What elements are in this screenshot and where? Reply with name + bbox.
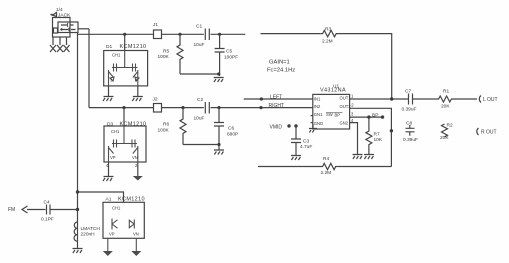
svg-text:IN2: IN2 (314, 104, 321, 109)
svg-text:GAIN=1: GAIN=1 (269, 60, 290, 66)
svg-text:C3: C3 (303, 139, 309, 145)
svg-text:C1: C1 (196, 24, 202, 30)
amplifier A1 KCM1210 (103, 197, 145, 252)
svg-text:680P: 680P (227, 132, 238, 138)
wire GND2 pin down (350, 123, 358, 154)
resistor R3 2.2M (321, 27, 338, 45)
wire stage2 bottom (183, 144, 219, 146)
inductor LMATCH 220nH (74, 222, 100, 241)
ground stage1 (214, 78, 224, 83)
svg-text:OUT1: OUT1 (340, 96, 352, 101)
svg-text:20K: 20K (441, 104, 450, 110)
node D3 input (122, 106, 125, 109)
svg-text:L OUT: L OUT (483, 97, 498, 103)
capacitor C1 10uF (194, 24, 210, 49)
svg-text:10K: 10K (374, 137, 383, 143)
resistor R7 10K (366, 117, 383, 154)
wire jack tip to right-channel corner (78, 28, 89, 30)
resistor R1 20K (437, 89, 453, 110)
svg-text:BP: BP (372, 113, 378, 119)
svg-text:VN: VN (133, 232, 139, 237)
GAIN annotation (267, 60, 295, 74)
svg-text:0.1PF: 0.1PF (41, 217, 54, 223)
ground LMATCH (73, 249, 83, 254)
wire C2 to IC (211, 107, 313, 109)
connector J1 (153, 22, 162, 39)
wire R4 bottom (258, 166, 321, 168)
jack J4 1/4" JACK connector (51, 7, 79, 37)
node left channel to D1 (123, 33, 126, 36)
wire left-channel top (78, 33, 154, 35)
protection D3 KCM1210 (104, 122, 146, 163)
jack switch contact stubs with X (no-connect) (50, 37, 70, 52)
node VMID a (287, 124, 290, 127)
svg-text:R4: R4 (323, 156, 329, 162)
port FM (8, 206, 28, 213)
ground stage2 (214, 150, 224, 155)
node R OUT tap (390, 129, 393, 132)
svg-text:LMATCH: LMATCH (81, 226, 101, 232)
wire C4 to junction (51, 209, 78, 211)
wire D3 input drop (123, 108, 125, 126)
svg-text:2.2M: 2.2M (321, 170, 332, 176)
svg-text:C6: C6 (228, 126, 234, 132)
svg-text:220nH: 220nH (81, 232, 96, 238)
svg-text:LEFT: LEFT (270, 94, 282, 100)
resistor R2 20K (440, 123, 453, 142)
svg-text:D1: D1 (106, 44, 112, 50)
wire feedback top segment (261, 33, 321, 35)
capacitor C3 4.7uF (291, 126, 312, 155)
wire BP (350, 116, 383, 118)
svg-text:VP: VP (109, 232, 115, 237)
svg-text:GND: GND (314, 121, 323, 126)
ground A1 left (triangle) (103, 251, 113, 256)
wire J2 to C2 (162, 107, 204, 109)
node feedback/OUT1 (390, 97, 393, 100)
ground D3 right pin (triangle) (133, 162, 143, 181)
wire FM antenna line vertical (77, 33, 79, 248)
pin stub left row3 (311, 115, 313, 117)
svg-text:0.39uF: 0.39uF (402, 107, 417, 113)
wire to A1 input (78, 192, 124, 202)
svg-text:RIGHT: RIGHT (269, 103, 285, 109)
svg-text:R OUT: R OUT (481, 130, 497, 136)
svg-text:VN: VN (132, 155, 138, 160)
svg-text:10uF: 10uF (194, 42, 205, 48)
capacitor C8 0.39uF (403, 121, 418, 144)
svg-text:100PF: 100PF (224, 55, 238, 61)
ground D1 left pin (103, 86, 114, 101)
capacitor C7 0.39uF (402, 89, 417, 113)
wire R3 to corner and down to OUT1 (338, 34, 392, 99)
wire J1 to C1 (162, 33, 204, 35)
node C5 tap (218, 33, 221, 36)
node VMID b (294, 124, 297, 127)
svg-text:2.2M: 2.2M (322, 39, 333, 45)
svg-text:R2: R2 (447, 123, 453, 129)
svg-text:KCM1210: KCM1210 (118, 197, 145, 203)
svg-text:SW: SW (326, 112, 333, 117)
svg-text:VMID: VMID (270, 124, 283, 130)
node C4 junction (76, 208, 79, 211)
svg-text:10uF: 10uF (194, 116, 205, 122)
wire OUT2 to corner down (350, 108, 392, 166)
ground R7 (364, 155, 374, 160)
capacitor C5 100PF (215, 34, 239, 76)
svg-text:VP: VP (110, 155, 116, 160)
resistor R6 100K (158, 108, 187, 145)
svg-text:Fc=24.1Hz: Fc=24.1Hz (267, 68, 295, 74)
svg-text:20K: 20K (440, 135, 449, 141)
node stage1 bottom (217, 72, 220, 75)
svg-text:R7: R7 (374, 132, 380, 138)
wire stage1 bottom R5 to C5 (180, 73, 219, 75)
wire R4 to OUT2 vertical (337, 166, 391, 168)
svg-text:FM: FM (8, 207, 15, 213)
ground D3 left pin (103, 162, 114, 181)
svg-text:V4312NA: V4312NA (320, 88, 346, 94)
svg-text:100K: 100K (158, 54, 170, 60)
resistor R4 2.2M (321, 156, 338, 176)
protection D1 KCM1210 (104, 44, 148, 86)
capacitor C2 10uF (194, 97, 210, 122)
ground D1 right pin (132, 86, 143, 101)
capacitor C6 680P (214, 108, 238, 150)
wire OUT1 to C7 (350, 98, 408, 100)
wire right-channel vertical (88, 29, 90, 108)
wire C7 to R1 (413, 98, 437, 100)
node R6 tap (181, 106, 184, 109)
svg-text:KCM1210: KCM1210 (120, 44, 147, 50)
svg-text:A1: A1 (106, 197, 112, 203)
svg-text:4.7uF: 4.7uF (300, 144, 312, 150)
wire right channel horizontal to J2 (89, 107, 154, 109)
svg-text:GN1: GN1 (314, 112, 323, 117)
svg-text:BP: BP (335, 113, 341, 118)
wire D1 input drop (124, 34, 126, 50)
svg-text:R1: R1 (443, 89, 449, 95)
svg-text:100K: 100K (158, 128, 170, 134)
node A1 tap (76, 190, 79, 193)
connector J2 (153, 97, 162, 113)
wire R1 to L OUT (453, 98, 477, 100)
port L OUT (479, 96, 497, 104)
svg-text:J1: J1 (153, 22, 158, 28)
svg-text:CH1: CH1 (112, 206, 121, 211)
node BP right (381, 115, 384, 118)
node BP left (367, 115, 370, 118)
svg-text:IN1: IN1 (314, 96, 321, 101)
svg-text:R5: R5 (163, 49, 169, 55)
ground GND2 (353, 155, 363, 160)
ground VMID cap (291, 156, 301, 161)
svg-text:0.39uF: 0.39uF (403, 137, 418, 143)
wire C1 to end (211, 33, 246, 35)
capacitor C4 0.1PF (41, 200, 54, 223)
svg-text:C2: C2 (197, 97, 203, 103)
ground A1 right (triangle) (131, 251, 141, 256)
ground GND1 left pin (309, 124, 317, 132)
port R OUT (477, 128, 497, 136)
wire LEFT net (244, 98, 313, 100)
wire FM to C4 (27, 209, 46, 211)
svg-text:R6: R6 (163, 122, 169, 128)
node LEFT to feedback (260, 97, 263, 100)
svg-text:C5: C5 (226, 49, 232, 55)
node C6 tap (217, 106, 220, 109)
node R5 tap (178, 33, 181, 36)
svg-text:J2: J2 (153, 97, 158, 103)
resistor R5 100K (158, 34, 184, 74)
svg-text:CH1: CH1 (112, 53, 121, 58)
svg-text:GN2: GN2 (340, 120, 349, 125)
svg-text:OUT2: OUT2 (340, 104, 352, 109)
amplifier U1 V4312NA (313, 84, 352, 130)
node RIGHT (259, 106, 262, 109)
pin stub left row4 (311, 122, 313, 124)
node stage2 bottom (217, 143, 220, 146)
svg-text:CH1: CH1 (111, 129, 120, 134)
